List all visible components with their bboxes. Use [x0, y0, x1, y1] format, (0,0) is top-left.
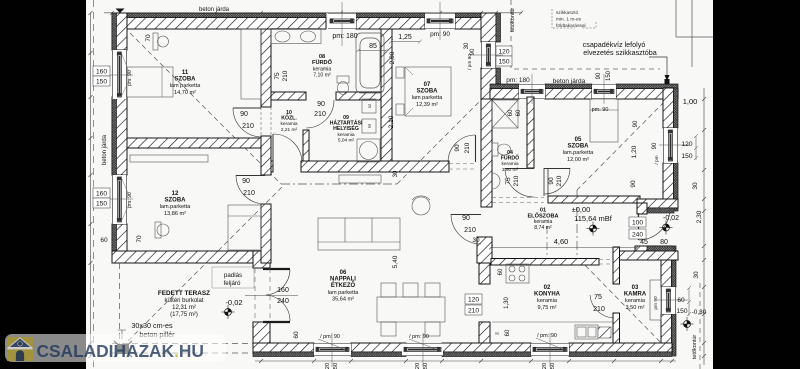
- bathroom 04 east wall: [527, 97, 534, 168]
- room 03 label: [624, 285, 647, 311]
- window N1 top wall: [328, 13, 356, 29]
- north wall west wing segment a: [112, 13, 326, 29]
- svg-text:12,39 m²: 12,39 m²: [416, 102, 438, 108]
- east wall lower segment b: [661, 314, 672, 356]
- svg-text:pm: 180: pm: 180: [506, 77, 530, 84]
- svg-text:05: 05: [575, 137, 582, 143]
- door nappali arc: [451, 214, 481, 244]
- svg-text:3,90 m²: 3,90 m²: [502, 167, 519, 173]
- west wall segment a: [112, 13, 127, 50]
- svg-text:20: 20: [325, 363, 331, 369]
- kamra west wall lower: [613, 313, 620, 343]
- bathroom 08 south wall segment a: [271, 92, 306, 100]
- svg-text:90: 90: [240, 111, 248, 118]
- dim 150 west lower: [93, 198, 110, 208]
- svg-text:feljáró: feljáró: [224, 280, 241, 287]
- svg-text:75: 75: [594, 294, 602, 301]
- svg-text:2,30: 2,30: [696, 210, 703, 223]
- svg-text:pm: 90: pm: 90: [127, 70, 133, 86]
- svg-text:12,00 m²: 12,00 m²: [567, 157, 589, 163]
- room 08 label: [312, 54, 333, 79]
- svg-text:min. 1 m-es: min. 1 m-es: [556, 17, 582, 23]
- wall between rooms 11 and 12: [127, 138, 271, 148]
- logo house icon door: [16, 350, 24, 361]
- room 05 label: [563, 137, 595, 163]
- svg-text:120: 120: [468, 297, 479, 304]
- svg-text:160: 160: [277, 287, 289, 294]
- svg-text:240: 240: [277, 298, 289, 305]
- svg-text:2,00: 2,00: [389, 51, 396, 64]
- hall door jamb lines: [544, 168, 548, 196]
- svg-text:30x30 cm-es: 30x30 cm-es: [131, 321, 173, 330]
- svg-text:210: 210: [464, 142, 471, 153]
- north wall right wing segment b: [545, 84, 592, 99]
- logo house icon circle: [17, 341, 22, 346]
- terrace double door arc lower: [266, 295, 290, 321]
- kamra west wall upper: [613, 247, 620, 284]
- washbasin room 04: [492, 173, 500, 189]
- svg-text:75: 75: [274, 72, 281, 80]
- door bathroom 04 arc: [505, 168, 534, 197]
- toilet room 04: [492, 143, 511, 156]
- terrace door dim line: [245, 295, 298, 297]
- window axis lines: [96, 2, 690, 367]
- kitchen bottom counter and sink: [492, 322, 614, 339]
- terrace-nappali wall lower block: [253, 322, 270, 343]
- svg-text:160: 160: [96, 191, 107, 198]
- drain point marker: [665, 79, 670, 84]
- svg-text:-0,30: -0,30: [692, 309, 707, 316]
- dim line 85: [356, 49, 388, 53]
- entry door leaf: [638, 213, 640, 240]
- terrace double door arc upper: [266, 270, 290, 295]
- svg-text:100: 100: [632, 220, 643, 227]
- svg-text:20: 20: [415, 363, 421, 369]
- svg-text:02: 02: [544, 285, 551, 291]
- roof contour dashed right lower: [699, 283, 701, 369]
- bed room 05: [590, 99, 618, 142]
- bed room 11: [127, 67, 173, 97]
- svg-text:kültéri burkolat: kültéri burkolat: [164, 298, 203, 304]
- room 12 south wall facing terrace: [112, 251, 270, 263]
- door room 07 arc: [448, 135, 475, 163]
- svg-text:pm: 90: pm: 90: [592, 107, 609, 113]
- svg-text:SZOBA: SZOBA: [175, 77, 197, 83]
- logo band: [5, 334, 226, 362]
- svg-text:115,64 mBf: 115,64 mBf: [574, 214, 613, 223]
- svg-text:30: 30: [693, 271, 700, 279]
- room 11-12 spine middle segment: [261, 136, 271, 175]
- svg-text:keramia: keramia: [537, 298, 558, 304]
- svg-text:FÜRDŐ: FÜRDŐ: [501, 155, 519, 162]
- window R2 right wing north: [592, 84, 616, 99]
- level marker hall: [587, 222, 600, 236]
- cabinet M room 09: [362, 119, 376, 133]
- west wall segment b: [112, 97, 127, 175]
- dim 150 top-right: [496, 56, 512, 66]
- svg-text:160: 160: [96, 69, 107, 76]
- toilet room 08: [337, 76, 349, 95]
- terrace-nappali wall upper block: [253, 251, 270, 268]
- svg-text:60: 60: [508, 109, 514, 116]
- sideboard nappali: [339, 175, 381, 183]
- svg-text:60: 60: [677, 297, 685, 304]
- dim line 1,25: [389, 40, 422, 44]
- roof hip NE diagonal: [577, 90, 676, 190]
- door room 12 arc: [236, 175, 265, 204]
- window S1 south wall: [314, 343, 351, 356]
- svg-text:keramia: keramia: [280, 121, 297, 127]
- level marker entry east: [660, 221, 673, 235]
- level marker entry se: [681, 317, 694, 331]
- svg-text:210: 210: [556, 175, 563, 186]
- closet room 11 east: [241, 29, 261, 99]
- svg-text:1,20: 1,20: [631, 145, 638, 158]
- bathroom 08 south wall segment b: [336, 92, 384, 100]
- svg-text:07: 07: [424, 82, 431, 88]
- svg-text:30: 30: [472, 237, 480, 244]
- chair room 12: [155, 222, 169, 238]
- svg-text:9,75 m²: 9,75 m²: [538, 305, 557, 311]
- window N2 top wall: [425, 13, 455, 29]
- room 07 label: [412, 82, 444, 108]
- svg-text:lam.parketta: lam.parketta: [160, 204, 192, 210]
- svg-text:210: 210: [593, 306, 605, 313]
- svg-text:70: 70: [136, 235, 143, 243]
- svg-text:75: 75: [505, 177, 512, 185]
- right black bar: [713, 0, 800, 369]
- svg-text:1,00: 1,00: [683, 97, 698, 106]
- bed room 07: [405, 67, 451, 116]
- konyha north wall thin: [491, 259, 599, 266]
- roof ridge right wing: [576, 190, 578, 257]
- svg-text:210: 210: [243, 190, 255, 197]
- svg-text:120: 120: [681, 141, 692, 148]
- bed room 12: [228, 205, 261, 250]
- svg-text:2,10: 2,10: [388, 115, 395, 128]
- logo house icon roof triangle: [10, 339, 30, 348]
- north wall right wing segment a: [490, 84, 519, 99]
- door kozl-nappali arc: [273, 134, 302, 163]
- hall threshold dashes: [492, 198, 613, 265]
- svg-text:11: 11: [182, 70, 189, 76]
- roof valley from junction: [397, 85, 496, 184]
- svg-text:120: 120: [498, 49, 509, 56]
- svg-text:keramia: keramia: [625, 298, 646, 304]
- svg-text:±0,00: ±0,00: [572, 205, 591, 214]
- washbasins room 08: [271, 29, 321, 44]
- dim 210 konyha door: [465, 305, 482, 315]
- svg-text:tetőkontúr: tetőkontúr: [692, 335, 698, 360]
- svg-text:60: 60: [505, 329, 511, 336]
- soakaway note: [552, 9, 596, 29]
- room 02 label: [534, 285, 561, 311]
- east wall upper segment a: [663, 88, 674, 128]
- svg-text:70: 70: [145, 34, 152, 42]
- pillar leader bracket: [118, 330, 126, 339]
- svg-text:80: 80: [660, 239, 668, 246]
- svg-text:1,30: 1,30: [504, 297, 510, 309]
- svg-text:90: 90: [317, 101, 325, 108]
- room 10 label: [280, 110, 297, 133]
- svg-text:CSALADIHAZAK.HU: CSALADIHAZAK.HU: [37, 341, 204, 361]
- hall-05 wall east step: [637, 203, 647, 214]
- dining table: [377, 283, 445, 336]
- roof hip SW diagonal: [116, 187, 282, 353]
- svg-text:13,86 m²: 13,86 m²: [164, 211, 186, 217]
- hall 4,60 dim line: [489, 246, 639, 250]
- svg-text:/ pm: / pm: [654, 155, 660, 164]
- svg-text:210: 210: [468, 308, 479, 315]
- terrace label: [158, 290, 210, 318]
- svg-text:08: 08: [319, 54, 325, 60]
- door room 11 leaf dashes: [261, 107, 271, 136]
- room 04 label: [501, 150, 519, 173]
- svg-text:-0,02: -0,02: [225, 298, 242, 307]
- corner survey point NW: [116, 9, 125, 14]
- svg-text:150: 150: [606, 70, 612, 81]
- svg-text:150: 150: [96, 201, 107, 208]
- door room 05 arc: [544, 168, 570, 194]
- sidewalk dashed boundary left: [93, 0, 95, 369]
- level marker terrace: [222, 305, 235, 319]
- svg-text:90: 90: [630, 180, 637, 188]
- window room 12 west wall: [112, 175, 127, 224]
- armchair nappali: [412, 196, 430, 215]
- konyha west wall lower: [479, 322, 490, 343]
- svg-text:4,60: 4,60: [554, 237, 569, 246]
- room 11 label: [170, 70, 202, 96]
- svg-text:150: 150: [498, 59, 509, 66]
- window R1 right wing north: [519, 84, 545, 99]
- bathtub room 08: [356, 33, 384, 93]
- dim 150 west upper: [93, 76, 110, 86]
- svg-text:60: 60: [293, 331, 300, 339]
- dim 100 entry: [629, 217, 646, 227]
- window east wall west wing: [481, 42, 496, 68]
- north wall west wing segment b: [356, 13, 425, 29]
- svg-text:KONYHA: KONYHA: [534, 292, 561, 298]
- svg-text:5,04 m²: 5,04 m²: [338, 137, 355, 143]
- room 11 east wall upper: [261, 29, 271, 107]
- entry wall insulation below: [647, 208, 674, 213]
- svg-text:90: 90: [242, 178, 250, 185]
- svg-text:KÖZL.: KÖZL.: [281, 115, 297, 122]
- kamra north wall block: [619, 251, 678, 260]
- east wall lower segment a: [661, 246, 672, 287]
- logo house icon background: [7, 337, 33, 361]
- svg-text:sz: sz: [367, 103, 372, 108]
- central spine wall lower block: [477, 237, 492, 263]
- washing machine room 09: [357, 139, 380, 162]
- svg-text:90: 90: [652, 142, 658, 149]
- svg-text:240: 240: [632, 232, 643, 239]
- door room 11 leaf: [233, 107, 261, 109]
- svg-text:30: 30: [464, 42, 470, 49]
- dim 160 west upper: [93, 66, 110, 76]
- svg-text:30: 30: [393, 170, 399, 177]
- svg-text:SZOBA: SZOBA: [165, 198, 187, 204]
- kamra shelf: [650, 280, 661, 320]
- svg-text:/ pm: 90: / pm: 90: [409, 334, 429, 340]
- svg-text:lam parketta: lam parketta: [412, 95, 444, 101]
- svg-text:H: H: [495, 331, 498, 336]
- svg-text:ÉTKEZŐ: ÉTKEZŐ: [331, 281, 356, 289]
- door kamra arc: [590, 295, 614, 318]
- south wall segment b: [351, 343, 406, 357]
- svg-text:KAMRA: KAMRA: [624, 292, 647, 298]
- svg-text:HELYISÉG: HELYISÉG: [333, 124, 359, 132]
- room 09 label: [330, 115, 363, 143]
- terrace boundary dashed: [112, 263, 253, 354]
- south wall segment c: [442, 343, 531, 357]
- svg-text:50: 50: [333, 363, 339, 369]
- svg-text:-0,02: -0,02: [663, 215, 679, 222]
- window S3 south wall: [531, 343, 569, 356]
- svg-text:210: 210: [282, 70, 289, 81]
- svg-text:pm: 90: pm: 90: [127, 192, 133, 208]
- svg-text:35,64 m²: 35,64 m²: [332, 296, 354, 302]
- svg-text:90: 90: [454, 144, 461, 152]
- desk room 11: [153, 33, 169, 50]
- svg-text:60: 60: [100, 237, 108, 244]
- svg-text:SZOBA: SZOBA: [417, 89, 439, 95]
- closet room 07 upper: [396, 67, 404, 78]
- wall between bathroom 08 and room 07: [381, 29, 392, 163]
- window kamra east wall: [661, 287, 676, 314]
- door room 11 arc: [233, 108, 261, 137]
- sofa nappali: [318, 218, 400, 250]
- hall south wall segment a: [301, 161, 449, 172]
- svg-text:90: 90: [596, 72, 602, 79]
- svg-text:12: 12: [172, 191, 179, 197]
- dimension chain left: [89, 11, 93, 358]
- wall between hall and room 05: [548, 196, 640, 203]
- attic access box: [212, 267, 254, 288]
- logo house icon gable gap: [7, 337, 32, 349]
- svg-text:/ pm 90: / pm 90: [467, 54, 473, 70]
- svg-text:50: 50: [423, 363, 429, 369]
- door room 07 leaf: [475, 135, 477, 162]
- svg-text:FÜRDŐ: FÜRDŐ: [312, 59, 333, 66]
- svg-text:NAPPALI: NAPPALI: [330, 277, 356, 283]
- svg-text:90: 90: [548, 177, 555, 185]
- window room 11 west wall: [112, 50, 127, 99]
- svg-text:2,21 m²: 2,21 m²: [281, 127, 298, 133]
- svg-text:14,70 m²: 14,70 m²: [174, 90, 196, 96]
- svg-text:SZOBA: SZOBA: [568, 144, 590, 150]
- entry wall block north: [637, 199, 678, 208]
- svg-text:M: M: [367, 124, 372, 128]
- closet room 07 lower: [396, 104, 404, 115]
- svg-text:3,50 m²: 3,50 m²: [626, 305, 645, 311]
- kozl east wall: [303, 130, 309, 161]
- roof ridge west wing: [281, 183, 397, 185]
- south wall segment d: [569, 343, 672, 357]
- dimension chain right: [702, 88, 706, 365]
- room 12 label: [160, 191, 192, 217]
- roof hip NW diagonal: [112, 15, 281, 184]
- konyha west wall upper: [479, 263, 490, 284]
- svg-text:06: 06: [340, 270, 347, 276]
- svg-text:padlás: padlás: [224, 272, 242, 279]
- svg-text:210: 210: [513, 175, 520, 186]
- cabinet sz room 09: [362, 99, 376, 113]
- svg-text:(17,75 m²): (17,75 m²): [170, 312, 198, 318]
- svg-text:lam parketta: lam parketta: [170, 83, 202, 89]
- roof contour dashes top-right: [511, 0, 660, 69]
- hall-05 door jamb: [544, 168, 548, 196]
- hall south wall east block: [635, 246, 661, 260]
- svg-text:210: 210: [314, 111, 326, 118]
- svg-text:FEDETT TERASZ: FEDETT TERASZ: [158, 290, 210, 297]
- svg-text:50: 50: [550, 363, 556, 369]
- room 06 label: [328, 270, 360, 302]
- svg-text:30: 30: [692, 182, 699, 190]
- window leader diagonals west: [121, 52, 129, 222]
- svg-text:150: 150: [681, 153, 692, 160]
- room 12 east wall lower: [261, 204, 271, 263]
- svg-text:8,74 m²: 8,74 m²: [534, 225, 552, 231]
- svg-text:1,25: 1,25: [398, 34, 412, 41]
- hall south wall west stub: [271, 161, 273, 172]
- svg-text:szikkasztó: szikkasztó: [556, 10, 578, 16]
- svg-text:keramia: keramia: [501, 161, 518, 167]
- roof hip SE diagonal: [577, 257, 672, 354]
- left black bar: [0, 0, 86, 369]
- svg-text:45: 45: [640, 239, 648, 246]
- dim 240 entry: [629, 229, 646, 239]
- svg-text:7,10 m²: 7,10 m²: [313, 73, 331, 79]
- svg-text:pm 90: pm 90: [653, 296, 659, 310]
- door bathroom-utility arc: [306, 100, 334, 128]
- svg-text:pm: 180: pm: 180: [332, 33, 357, 40]
- door bathroom 04 leaf: [505, 168, 534, 170]
- svg-text:beton járda: beton járda: [102, 134, 108, 165]
- svg-text:pm: 90: pm: 90: [430, 31, 450, 38]
- east wall upper segment b: [663, 163, 674, 211]
- svg-text:03: 03: [632, 285, 639, 291]
- door nappali leaf: [451, 214, 481, 216]
- svg-text:/ pm: 90: / pm: 90: [537, 333, 557, 339]
- svg-text:60: 60: [498, 268, 504, 275]
- svg-text:keramia: keramia: [337, 132, 354, 138]
- room 01 label: [527, 208, 558, 231]
- door room 05 leaf: [544, 168, 570, 170]
- svg-text:90: 90: [633, 120, 639, 127]
- door kozl-nappali leaf: [272, 134, 274, 163]
- svg-text:lam parketta: lam parketta: [328, 290, 360, 296]
- window room 05 east wall: [663, 128, 678, 163]
- dim 120 top-right: [496, 46, 512, 56]
- svg-text:210: 210: [242, 123, 254, 130]
- east 05 dim bracket: [694, 134, 698, 160]
- svg-text:lam.parketta: lam.parketta: [563, 150, 595, 156]
- drain leader: [649, 57, 670, 81]
- north wall right wing segment c: [616, 84, 678, 99]
- dim 160 west lower: [93, 188, 110, 198]
- terrace pillar: [114, 341, 132, 357]
- svg-text:150: 150: [676, 308, 687, 315]
- parcel corner lines top-right: [676, 0, 713, 67]
- east wall west wing upper segment: [481, 13, 496, 42]
- window S2 south wall: [402, 343, 443, 356]
- east kamra dim bracket: [687, 286, 691, 316]
- terrace door leaves: [263, 269, 290, 322]
- shower room 04: [492, 100, 518, 128]
- svg-text:/ pm: 90: / pm: 90: [320, 334, 340, 340]
- window leader diagonals bottom: [318, 338, 567, 351]
